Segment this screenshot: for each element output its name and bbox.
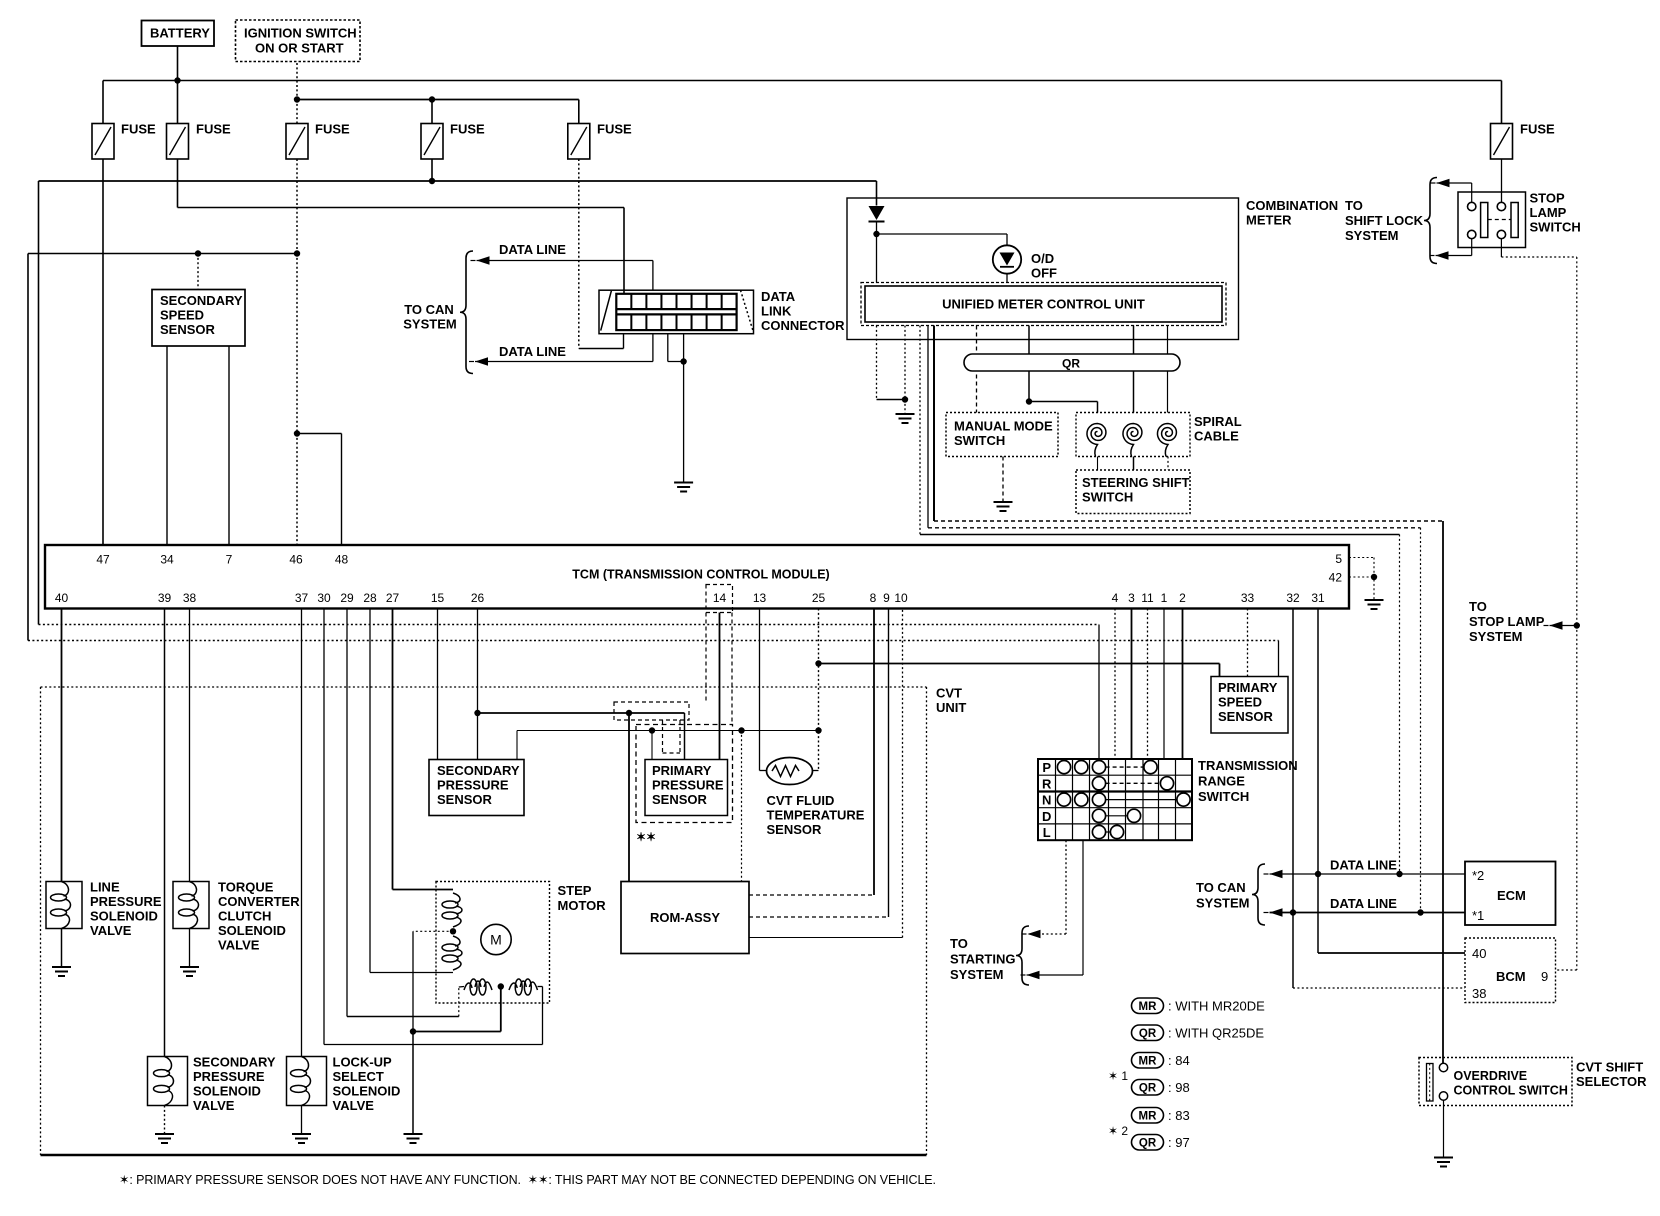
svg-text:26: 26 xyxy=(471,591,485,605)
svg-text:39: 39 xyxy=(158,591,172,605)
wire pin32 to BCM 38 xyxy=(1292,913,1294,989)
svg-text:RANGE: RANGE xyxy=(1198,774,1245,789)
svg-text:SHIFT LOCK: SHIFT LOCK xyxy=(1345,213,1424,228)
wire fuse4 to bus y181 xyxy=(431,159,433,181)
wire fuse3 down dotted xyxy=(296,159,298,254)
wire junction to speed sensor xyxy=(197,254,199,290)
fuse F3 xyxy=(286,124,308,160)
svg-text:SYSTEM: SYSTEM xyxy=(403,317,456,332)
wire UMCU to overdrive switch xyxy=(933,326,935,522)
wire pins 5/42 to ground xyxy=(1373,558,1375,600)
wire UMCU CAN-H line xyxy=(919,326,921,535)
QR capsule xyxy=(964,354,1180,371)
svg-text:CONVERTER: CONVERTER xyxy=(218,894,300,909)
wire fuse5 down dotted xyxy=(578,159,580,349)
arrow data line lower xyxy=(475,357,488,365)
svg-text:: 98: : 98 xyxy=(1168,1080,1190,1095)
legend QR 97 xyxy=(1132,1135,1164,1151)
wire rail730 to PPS xyxy=(651,731,653,760)
svg-text:STARTING: STARTING xyxy=(950,952,1015,967)
svg-text:5: 5 xyxy=(1335,552,1342,566)
step motor coil 4 xyxy=(515,979,522,995)
data link connector pin grid xyxy=(616,294,736,330)
svg-text:SOLENOID: SOLENOID xyxy=(333,1084,401,1099)
wire overdrive switch to ground xyxy=(1443,1100,1445,1157)
primary pressure sensor box xyxy=(645,760,728,816)
wire TCM pin 33 to primary speed sensor xyxy=(1247,609,1249,677)
range switch row P contacts xyxy=(1106,766,1144,768)
svg-text:29: 29 xyxy=(340,591,354,605)
brace to can system lower xyxy=(1252,864,1265,925)
diode D1 xyxy=(869,206,885,220)
CVT fluid temperature sensor xyxy=(767,758,813,785)
svg-text:DATA: DATA xyxy=(761,289,796,304)
wire TCM pin 2 to range switch xyxy=(1182,609,1184,760)
svg-text:✶✶: ✶✶ xyxy=(636,830,656,844)
svg-text:27: 27 xyxy=(386,591,400,605)
svg-text:UNIFIED METER CONTROL UNIT: UNIFIED METER CONTROL UNIT xyxy=(942,297,1145,312)
wire junction to TCM pin 46 xyxy=(296,434,298,546)
wire ROM to TCM pin 10 xyxy=(749,937,903,939)
svg-text:QR: QR xyxy=(1062,357,1080,371)
svg-text:SPEED: SPEED xyxy=(160,308,204,323)
legend MR with MR20DE xyxy=(1132,998,1164,1014)
svg-text:: 84: : 84 xyxy=(1168,1053,1190,1068)
wire left drop A from y181 xyxy=(38,181,40,625)
svg-text:FUSE: FUSE xyxy=(450,122,485,137)
svg-text:: 97: : 97 xyxy=(1168,1135,1190,1150)
wire TCM pin 14 to primary pressure sensor xyxy=(719,613,721,760)
ECM box xyxy=(1465,862,1556,926)
svg-text:14: 14 xyxy=(713,591,727,605)
svg-text:FUSE: FUSE xyxy=(121,122,156,137)
svg-text:DATA LINE: DATA LINE xyxy=(499,344,566,359)
svg-text:SWITCH: SWITCH xyxy=(954,433,1005,448)
svg-text:SWITCH: SWITCH xyxy=(1198,789,1249,804)
overdrive switch circles xyxy=(1439,1063,1447,1071)
svg-text:LINK: LINK xyxy=(761,304,792,319)
wire dotted bus y624 to range switch common xyxy=(39,624,1100,626)
legend MR 84 xyxy=(1132,1053,1164,1069)
svg-text:9: 9 xyxy=(1541,969,1548,984)
svg-text:31: 31 xyxy=(1311,591,1325,605)
wire junction to fuse3 xyxy=(296,100,298,124)
wire TCM pin 42 xyxy=(1349,576,1374,578)
svg-text:QR: QR xyxy=(1139,1083,1157,1095)
svg-text:FUSE: FUSE xyxy=(597,122,632,137)
range switch row R contacts xyxy=(1106,782,1161,784)
wire TCM pin 13 to temp sensor xyxy=(759,609,761,771)
svg-text:✶ 2: ✶ 2 xyxy=(1108,1124,1128,1138)
wire line pressure solenoid to ground xyxy=(61,929,63,967)
arrow starting system 1 xyxy=(1028,930,1041,938)
svg-text:UNIT: UNIT xyxy=(936,700,966,715)
range switch row L contacts xyxy=(1106,831,1111,833)
svg-text:: WITH QR25DE: : WITH QR25DE xyxy=(1168,1026,1264,1041)
node fuse4 bottom junction xyxy=(429,178,435,184)
wire stop lamp sw output xyxy=(1500,239,1502,257)
wire stop lamp to BCM 9 xyxy=(1576,626,1578,971)
wire TCM pin 5 xyxy=(1349,557,1374,559)
svg-text:D: D xyxy=(1042,809,1051,824)
svg-text:TO: TO xyxy=(1345,198,1363,213)
wire TCM pin 27 to step motor coil1 xyxy=(392,609,394,890)
wire speed sensor to TCM pin 7 xyxy=(228,346,230,545)
svg-text:48: 48 xyxy=(335,553,349,567)
svg-text:PRESSURE: PRESSURE xyxy=(193,1069,265,1084)
range switch row D contacts xyxy=(1106,815,1128,817)
svg-text:SELECTOR: SELECTOR xyxy=(1576,1074,1647,1089)
svg-text:✶: PRIMARY PRESSURE SENSOR DOE: ✶: PRIMARY PRESSURE SENSOR DOES NOT HAVE… xyxy=(119,1173,936,1187)
wire TCM pin 31 to CAN-H xyxy=(1317,609,1319,875)
svg-text:VALVE: VALVE xyxy=(218,938,260,953)
svg-text:MANUAL MODE: MANUAL MODE xyxy=(954,419,1053,434)
arrow shift lock upper xyxy=(1437,179,1450,187)
svg-text:MR: MR xyxy=(1139,1056,1158,1068)
svg-text:CVT FLUID: CVT FLUID xyxy=(767,793,835,808)
node ignition y253 junction xyxy=(294,250,300,256)
unified meter control unit box xyxy=(861,283,1226,326)
svg-text:CONNECTOR: CONNECTOR xyxy=(761,318,845,333)
wire speed sensor to TCM pin 34 xyxy=(166,346,168,545)
svg-text:SPIRAL: SPIRAL xyxy=(1194,414,1242,429)
node meter CAN-H junction xyxy=(1396,871,1402,877)
wire fuse2 branch down to DLC xyxy=(623,208,625,294)
svg-text:STOP: STOP xyxy=(1530,191,1565,206)
secondary pressure sensor box xyxy=(429,760,524,816)
svg-text:SYSTEM: SYSTEM xyxy=(1196,896,1249,911)
wire pin25 to temp sensor xyxy=(813,770,819,772)
wire TCM pin 3 to range switch xyxy=(1131,609,1133,760)
wire step bottom tap xyxy=(500,987,502,1032)
wire fuse2 down xyxy=(177,159,179,208)
dashed connector stubs xyxy=(662,720,664,753)
arrow shift lock lower xyxy=(1436,251,1449,259)
wire DLC junction to ground xyxy=(683,362,685,483)
wire TCM pin 15 to secondary pressure sensor xyxy=(437,609,439,760)
svg-text:LOCK-UP: LOCK-UP xyxy=(333,1055,393,1070)
wire ignition aux bus y253 xyxy=(28,253,297,255)
wire bus to fuse5 xyxy=(578,100,580,124)
svg-text:OVERDRIVE: OVERDRIVE xyxy=(1454,1069,1528,1083)
svg-text:SECONDARY: SECONDARY xyxy=(160,293,243,308)
svg-text:TO CAN: TO CAN xyxy=(1196,880,1246,895)
wire bus y640 down to PSS xyxy=(1278,641,1280,677)
wire TCM pin 37 to lock-up select solenoid xyxy=(301,609,303,1057)
svg-text:VALVE: VALVE xyxy=(193,1098,235,1113)
wire junction to OD LED xyxy=(877,233,1008,235)
svg-text:34: 34 xyxy=(160,553,174,567)
TCM pin 14 dashed outline xyxy=(706,585,733,613)
svg-text:FUSE: FUSE xyxy=(1520,122,1555,137)
svg-text:TO: TO xyxy=(1469,599,1487,614)
svg-text:40: 40 xyxy=(1472,946,1486,961)
svg-text:PRESSURE: PRESSURE xyxy=(437,778,509,793)
line pressure solenoid coil xyxy=(51,894,67,901)
wire spiral3 to steering switch xyxy=(1167,457,1169,471)
wire TCM pin 1 to range switch xyxy=(1163,609,1165,760)
wire bus to fuse6 xyxy=(1501,81,1503,124)
node pin25 PSS junction xyxy=(815,660,821,666)
svg-text:40: 40 xyxy=(55,591,69,605)
node pin42 junction xyxy=(1371,574,1377,580)
svg-text:8: 8 xyxy=(870,591,877,605)
wire TCM pin 25 dotted xyxy=(818,609,820,771)
primary pressure sensor outer dashed box xyxy=(636,725,733,823)
data link connector body xyxy=(599,290,754,334)
brace to shift lock system xyxy=(1424,178,1437,264)
node pin31 data line junction xyxy=(1315,871,1321,877)
wire junction to spiral 1 xyxy=(1029,401,1098,403)
svg-text:CLUTCH: CLUTCH xyxy=(218,909,271,924)
svg-text:9: 9 xyxy=(883,591,890,605)
wire fuse1 to TCM pin 47 xyxy=(102,159,104,545)
svg-text:PRIMARY: PRIMARY xyxy=(652,763,712,778)
svg-text:11: 11 xyxy=(1141,591,1154,605)
svg-text:M: M xyxy=(490,932,502,948)
wire range switch to starting system 1 xyxy=(1065,840,1067,934)
step motor coil 2 xyxy=(442,944,458,951)
manual mode switch box xyxy=(946,413,1058,457)
transmission range switch grid xyxy=(1038,759,1192,840)
svg-text:TO: TO xyxy=(950,936,968,951)
wire UMCU to spiral 3 xyxy=(1167,326,1169,413)
wire fuse6 to stop lamp switch xyxy=(1501,159,1503,203)
LED O/D OFF xyxy=(993,245,1021,273)
svg-text:SECONDARY: SECONDARY xyxy=(193,1055,276,1070)
svg-text:13: 13 xyxy=(753,591,767,605)
svg-text:SPEED: SPEED xyxy=(1218,695,1262,710)
wire fuse5 to DLC pin xyxy=(579,348,624,350)
svg-text:BCM: BCM xyxy=(1496,969,1526,984)
ground manual mode switch xyxy=(994,501,1013,503)
arrow data line upper xyxy=(477,256,490,264)
svg-text:IGNITION SWITCH: IGNITION SWITCH xyxy=(244,26,357,41)
wire data line 1 xyxy=(1270,873,1466,875)
wire rail730 to ROM dotted xyxy=(741,731,743,882)
svg-text:: WITH MR20DE: : WITH MR20DE xyxy=(1168,999,1265,1014)
battery B1 xyxy=(142,21,215,47)
svg-text:*1: *1 xyxy=(1472,908,1484,923)
svg-text:33: 33 xyxy=(1241,591,1255,605)
svg-text:✶ 1: ✶ 1 xyxy=(1108,1069,1128,1083)
svg-text:P: P xyxy=(1042,760,1051,775)
ground line pressure solenoid xyxy=(52,966,71,968)
wire ignition down xyxy=(296,63,298,100)
spiral 3 xyxy=(1158,424,1177,457)
fuse F1 xyxy=(92,124,114,160)
svg-text:SWITCH: SWITCH xyxy=(1082,490,1133,505)
secondary speed sensor box xyxy=(152,290,245,347)
wire sensor supply rail y713 xyxy=(478,712,685,714)
svg-text:32: 32 xyxy=(1286,591,1300,605)
svg-text:: 83: : 83 xyxy=(1168,1108,1190,1123)
wire TCM pin 39 to secondary pressure solenoid xyxy=(164,609,166,1057)
node spiral junction xyxy=(1026,398,1032,404)
wire DLC ground pin xyxy=(683,334,685,362)
node step motor mid junction xyxy=(450,928,456,934)
svg-text:STEERING SHIFT: STEERING SHIFT xyxy=(1082,475,1190,490)
svg-text:SOLENOID: SOLENOID xyxy=(90,909,158,924)
wire TCM pin 29 to step coil3 xyxy=(346,609,348,1017)
svg-text:PRESSURE: PRESSURE xyxy=(90,894,162,909)
wire data line 2 xyxy=(1270,912,1466,914)
BCM box xyxy=(1465,938,1556,1003)
CVT unit dashed box xyxy=(41,686,927,688)
svg-text:46: 46 xyxy=(289,553,303,567)
svg-text:N: N xyxy=(1042,793,1051,808)
wire diode to junction xyxy=(876,222,878,234)
step motor coil 3 xyxy=(470,979,477,995)
wire step mid tap xyxy=(413,930,453,932)
ground TCM xyxy=(1365,599,1384,601)
arrow can system 1 xyxy=(1270,870,1283,878)
node meter ground junction xyxy=(902,396,908,402)
wire secondary pressure solenoid to ground xyxy=(164,1106,166,1134)
svg-text:CVT SHIFT: CVT SHIFT xyxy=(1576,1060,1643,1075)
svg-text:QR: QR xyxy=(1139,1138,1157,1150)
node ignition bus junction xyxy=(294,96,300,102)
wire bus to fuse4 xyxy=(431,100,433,124)
secondary pressure solenoid valve box xyxy=(148,1057,188,1106)
svg-text:ROM-ASSY: ROM-ASSY xyxy=(650,910,720,925)
svg-text:SENSOR: SENSOR xyxy=(160,322,216,337)
wire LED to UMCU xyxy=(1006,274,1008,283)
combination meter box xyxy=(847,198,1239,340)
wire TCM pin 32 to CAN-L xyxy=(1292,609,1294,913)
svg-text:CABLE: CABLE xyxy=(1194,429,1239,444)
node rail730 PPS junction xyxy=(649,727,655,733)
svg-text:30: 30 xyxy=(317,591,331,605)
node step ground junction xyxy=(410,1028,416,1034)
wire junction to UMCU xyxy=(876,234,878,283)
ground overdrive switch xyxy=(1434,1157,1453,1159)
svg-text:L: L xyxy=(1043,825,1051,840)
arrow starting system 2 xyxy=(1027,971,1040,979)
torque converter clutch solenoid coil xyxy=(179,894,195,901)
wire meter ground stub xyxy=(904,400,906,414)
TCM box xyxy=(45,545,1349,609)
wire ignition to pin46/48 junction xyxy=(296,254,298,434)
svg-text:SENSOR: SENSOR xyxy=(652,792,708,807)
svg-text:SYSTEM: SYSTEM xyxy=(950,967,1003,982)
wire TCM pin 26 down xyxy=(477,609,479,760)
svg-text:VALVE: VALVE xyxy=(90,923,132,938)
svg-text:PRIMARY: PRIMARY xyxy=(1218,680,1278,695)
wire battery to bus xyxy=(177,46,179,81)
node step motor bottom junction xyxy=(498,983,504,989)
wire lock-up select solenoid to ground xyxy=(301,1106,303,1134)
svg-text:O/D: O/D xyxy=(1031,251,1054,266)
wire TCM pin 30 to step coil4 xyxy=(323,609,325,1045)
wire ignition bus y99 xyxy=(297,99,579,101)
wire rail corner to primary pressure sensor xyxy=(684,713,686,760)
wire step motor ground xyxy=(412,1032,414,1134)
wire UMCU CAN-L line xyxy=(927,326,929,528)
wire TCM pin 11 to range switch xyxy=(1147,609,1149,760)
node pin46/48 junction xyxy=(294,430,300,436)
wire dotted bus y640 to primary speed sensor xyxy=(28,640,1279,642)
wire battery bus y80 xyxy=(103,80,1502,82)
svg-text:DATA LINE: DATA LINE xyxy=(1330,858,1397,873)
dashed conduit pin14 left xyxy=(705,613,707,703)
svg-text:DATA LINE: DATA LINE xyxy=(499,242,566,257)
node pin32 data line junction xyxy=(1290,909,1296,915)
stop lamp switch box xyxy=(1458,192,1526,248)
wire UMCU gnd branch a xyxy=(876,326,878,400)
svg-text:VALVE: VALVE xyxy=(333,1098,375,1113)
node fuse4 top junction xyxy=(429,96,435,102)
node rom supply junction xyxy=(626,710,632,716)
lock-up select solenoid coil xyxy=(291,1070,307,1077)
svg-text:PRESSURE: PRESSURE xyxy=(652,778,724,793)
fuse F6 xyxy=(1491,124,1513,160)
spiral cable box xyxy=(1076,413,1190,457)
svg-text:10: 10 xyxy=(894,591,908,605)
svg-text:FUSE: FUSE xyxy=(196,122,231,137)
svg-text:TRANSMISSION: TRANSMISSION xyxy=(1198,758,1298,773)
legend MR 83 xyxy=(1132,1108,1164,1124)
range switch row N contacts xyxy=(1106,799,1177,801)
fuse F4 xyxy=(421,124,443,160)
arrow to stop lamp system xyxy=(1550,621,1563,629)
ground secondary pressure solenoid xyxy=(155,1133,174,1135)
node DLC ground junction xyxy=(680,358,686,364)
svg-text:2: 2 xyxy=(1179,591,1186,605)
svg-text:4: 4 xyxy=(1112,591,1119,605)
stop lamp switch contacts xyxy=(1468,202,1476,210)
node pin25 rail junction xyxy=(815,727,821,733)
wire stop lamp sw upper-left xyxy=(1471,183,1473,202)
node battery bus junction xyxy=(174,77,180,83)
ground step motor xyxy=(404,1133,423,1135)
wire rail to ROM-ASSY xyxy=(628,713,630,882)
wire fuse2 right y208 xyxy=(178,207,625,209)
svg-text:SWITCH: SWITCH xyxy=(1530,220,1581,235)
secondary pressure solenoid coil xyxy=(154,1070,170,1077)
wire UMCU to manual mode switch xyxy=(976,326,978,413)
wire MMS to ground xyxy=(1002,457,1004,502)
wire to stop lamp system arrow xyxy=(1550,625,1577,627)
svg-text:STEP: STEP xyxy=(558,883,592,898)
svg-text:15: 15 xyxy=(431,591,445,605)
svg-text:SECONDARY: SECONDARY xyxy=(437,763,520,778)
brace to can system upper xyxy=(460,251,473,374)
overdrive switch connector bar xyxy=(1427,1064,1434,1102)
svg-text:MR: MR xyxy=(1139,1001,1158,1013)
wire pin25 rail y663 to primary speed sensor xyxy=(819,663,1220,665)
wire range switch to starting system 2 xyxy=(1082,840,1084,975)
wire left drop B from y253 xyxy=(27,254,29,641)
wire spiral2 to steering switch xyxy=(1133,457,1135,471)
wire DLC data line lower xyxy=(652,334,654,362)
svg-text:TO CAN: TO CAN xyxy=(404,302,454,317)
svg-text:TORQUE: TORQUE xyxy=(218,880,274,895)
step motor box xyxy=(436,882,550,1004)
wire y181 bus to diode xyxy=(876,181,878,206)
wire DLC pin to k-line junction xyxy=(667,334,669,362)
ground combination meter xyxy=(896,413,915,415)
svg-text:CVT: CVT xyxy=(936,686,962,701)
svg-text:DATA LINE: DATA LINE xyxy=(1330,896,1397,911)
fuse F5 xyxy=(568,124,590,160)
ground DLC xyxy=(674,482,693,484)
wire pin31 to BCM 40 xyxy=(1317,874,1319,953)
spiral 2 xyxy=(1123,424,1142,457)
svg-text:28: 28 xyxy=(363,591,377,605)
svg-text:25: 25 xyxy=(812,591,826,605)
svg-text:COMBINATION: COMBINATION xyxy=(1246,198,1338,213)
